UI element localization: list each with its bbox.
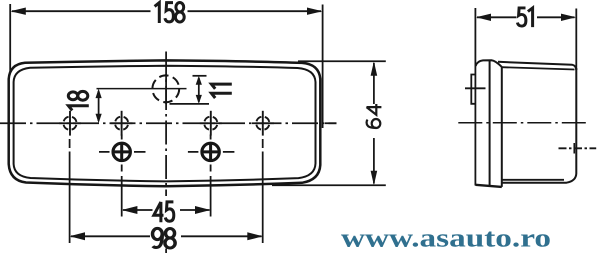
- svg-text:www.asauto.ro: www.asauto.ro: [341, 224, 551, 253]
